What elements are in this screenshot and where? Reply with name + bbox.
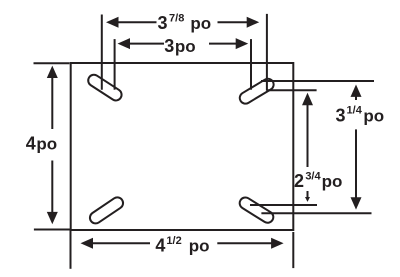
extension line right of 4 1/2 dim (below plate) (292, 232, 294, 268)
extension line left of 3 7/8 dim (101, 15, 103, 90)
dimension 3 po line with arrows (118, 38, 249, 49)
dimension 3 7/8 po line with arrows (106, 17, 259, 28)
extension line right of 3 7/8 dim (266, 14, 268, 91)
dimension 4 1/2 po line with arrows (81, 238, 284, 249)
extension line top of 4 po dim (34, 62, 70, 64)
dimension 3 1/4 po line with arrows (351, 85, 362, 210)
slot top-right (238, 77, 276, 106)
slot bottom-right (238, 195, 276, 225)
extension line bottom of 3 1/4 dim (261, 212, 371, 214)
extension line bottom of 4 po dim (34, 229, 70, 231)
svg-text:4po: 4po (26, 133, 57, 153)
slot top-left (86, 73, 124, 103)
extension line top of 3 1/4 dim (261, 80, 374, 82)
extension line top of 2 3/4 dim (267, 89, 317, 91)
slot bottom-left (88, 195, 126, 225)
extension line left of 3 dim (114, 39, 116, 90)
extension line bottom of 2 3/4 dim (250, 204, 317, 206)
dimension 4 po line with arrows (47, 66, 58, 225)
extension line right of 3 dim (250, 39, 252, 90)
dimension 2 3/4 po line with arrows (302, 93, 313, 202)
extension line left of 4 1/2 dim (below plate) (70, 230, 72, 268)
svg-text:3po: 3po (164, 36, 195, 56)
plate outline (71, 63, 294, 230)
